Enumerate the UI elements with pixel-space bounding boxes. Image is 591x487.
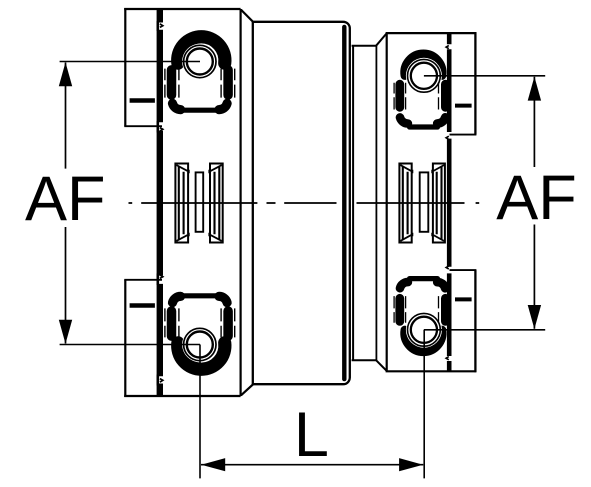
right press bar tooth bottom (446, 357, 449, 360)
right clamp body left edge (386, 33, 388, 371)
right clamp body bottom edge (386, 370, 477, 372)
right press bar (447, 33, 452, 371)
neck top edge (352, 45, 376, 47)
left press bar tooth upper-mid (160, 128, 163, 131)
bolt clamp bottom-right (394, 279, 445, 352)
L dimension line (201, 464, 423, 466)
left bolt shaft window (196, 172, 204, 231)
bolt clamp top-right (394, 54, 445, 127)
bolt clamp top-left (165, 37, 235, 110)
bolt clamp bottom-left (165, 296, 235, 369)
left press bar tooth top (160, 24, 163, 28)
left flange tab bottom top-edge (124, 279, 162, 281)
left grip rib B (210, 164, 223, 243)
neck chamfer bottom diagonal (376, 360, 387, 371)
svg-text:AF: AF (25, 164, 106, 234)
left flange tab bottom slot mark (130, 303, 155, 307)
AF-left extension line top (60, 61, 200, 63)
AF-right extension line top (424, 75, 545, 77)
left press bar (157, 9, 163, 396)
left grip rib A (175, 164, 188, 243)
left flange tab bottom (124, 280, 126, 397)
center cylinder outline (253, 22, 350, 384)
neck chamfer edge (375, 46, 377, 360)
L arrowhead left (201, 458, 225, 471)
AF-right arrowhead up (528, 77, 541, 101)
right bolt shaft window (420, 172, 429, 231)
center cylinder end bead (342, 27, 346, 379)
svg-text:L: L (294, 400, 329, 470)
left clamp body bottom edge (124, 395, 240, 397)
neck left edge (352, 46, 354, 360)
right clamp body top edge (386, 32, 477, 34)
right flange tab top (474, 32, 476, 135)
L extension line left (199, 345, 201, 479)
AF-left arrowhead up (59, 62, 72, 86)
left clamp body right edge (240, 9, 242, 396)
right flange tab top slot mark (455, 104, 472, 108)
AF-left extension line bottom (60, 344, 200, 346)
right flange tab bottom top-edge (450, 269, 477, 271)
right press bar tooth top (446, 46, 449, 49)
right flange tab top bottom-edge (450, 134, 477, 136)
left body chamfer bottom (241, 384, 253, 395)
left body chamfer top (241, 10, 253, 22)
neck bottom edge (352, 359, 376, 361)
L extension line right (423, 330, 425, 479)
left press bar tooth bottom (160, 379, 163, 383)
neck chamfer top diagonal (376, 34, 387, 47)
AF-right dimension line (533, 77, 535, 329)
L arrowhead right (399, 458, 423, 471)
AF-right arrowhead down (528, 305, 541, 329)
AF-left arrowhead down (59, 320, 72, 344)
centerline (129, 202, 480, 204)
right flange tab bottom slot mark (455, 297, 472, 301)
right grip rib B (433, 164, 445, 243)
AF-left dimension line (65, 63, 67, 344)
svg-text:AF: AF (496, 163, 577, 233)
right grip rib A (399, 164, 411, 243)
left flange tab top slot mark (130, 98, 155, 102)
AF-right extension line bottom (424, 329, 545, 331)
right press bar tooth lower-mid (446, 266, 449, 269)
left press bar tooth lower-mid (160, 275, 163, 278)
left flange tab top (124, 8, 126, 126)
right flange tab bottom (474, 270, 476, 372)
left press bar seam line (157, 21, 160, 386)
right press bar tooth upper-mid (446, 136, 449, 139)
left flange tab top bottom-edge (124, 125, 162, 127)
left clamp body top edge (124, 8, 240, 10)
